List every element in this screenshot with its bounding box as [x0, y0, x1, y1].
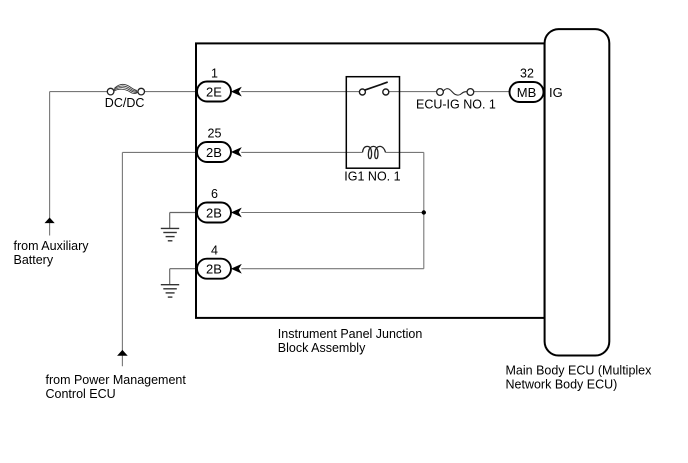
wire: relay coil to right vertical — [386, 151, 424, 153]
svg-text:MB: MB — [517, 85, 537, 100]
arrowhead into pin 2E — [232, 88, 241, 96]
svg-text:Main Body ECU (Multiplex: Main Body ECU (Multiplex — [506, 363, 653, 377]
pin oval 2B (6) — [197, 203, 231, 223]
svg-text:Instrument Panel Junction: Instrument Panel Junction — [278, 327, 423, 341]
wire: ground stub pin 6 — [170, 213, 197, 229]
wire: battery feed horizontal into DC/DC — [50, 91, 108, 93]
junction block box — [196, 43, 545, 318]
svg-text:DC/DC: DC/DC — [105, 96, 145, 110]
svg-text:2B: 2B — [206, 262, 222, 277]
pin oval 2B (4) — [197, 259, 231, 279]
svg-text:Network Body ECU): Network Body ECU) — [506, 377, 618, 391]
svg-text:ECU-IG NO. 1: ECU-IG NO. 1 — [416, 97, 496, 111]
wire: pin 2B(6) to junction — [241, 212, 423, 214]
svg-text:IG1 NO. 1: IG1 NO. 1 — [344, 170, 400, 184]
wire: pin 2E to relay switch — [241, 91, 359, 93]
wire: ground stub pin 4 — [170, 269, 197, 285]
svg-text:from Auxiliary: from Auxiliary — [14, 239, 90, 253]
relay switch contact right — [383, 89, 389, 95]
svg-text:IG: IG — [549, 85, 563, 100]
svg-text:from Power Management: from Power Management — [46, 373, 187, 387]
svg-text:6: 6 — [211, 187, 218, 201]
svg-text:4: 4 — [211, 243, 218, 257]
wire: battery feed vertical — [49, 92, 51, 236]
arrow from power management ECU — [117, 350, 128, 356]
wire: pin 2B(4) to junction vertical — [241, 268, 423, 270]
svg-text:Control ECU: Control ECU — [46, 387, 116, 401]
svg-text:Battery: Battery — [14, 253, 54, 267]
svg-text:32: 32 — [520, 66, 534, 80]
wire: DC/DC to junction block pin 2E — [144, 91, 197, 93]
svg-text:2B: 2B — [206, 145, 222, 160]
wire: vertical from coil to pin4 line — [423, 152, 425, 268]
relay coil — [363, 146, 386, 158]
svg-text:1: 1 — [211, 66, 218, 80]
junction node — [422, 210, 426, 214]
pin oval 2E — [197, 82, 231, 102]
fuse DC/DC — [113, 84, 137, 93]
wire: pin 2B(25) to relay coil — [241, 151, 362, 153]
wire: ECU-IG fuse to MB pin — [473, 91, 509, 93]
Main Body ECU pill — [545, 29, 610, 355]
arrow from auxiliary battery — [45, 218, 55, 224]
relay switch blade — [365, 82, 388, 90]
wire: relay switch to ECU-IG fuse — [389, 91, 437, 93]
ground symbol pin 4 — [161, 285, 179, 297]
fuse ECU-IG NO. 1 — [443, 89, 467, 95]
svg-text:2B: 2B — [206, 205, 222, 220]
relay box IG1 NO. 1 — [346, 77, 399, 169]
pin oval 2B (25) — [197, 142, 231, 162]
ground symbol pin 6 — [161, 228, 179, 240]
arrowhead into pin 2B(6) — [232, 208, 241, 216]
arrowhead into pin 2B(25) — [232, 148, 241, 156]
arrowhead into pin 2B(4) — [232, 265, 241, 273]
wire — [50, 92, 510, 367]
wire: power management feed to pin 2B(25) — [122, 151, 197, 153]
svg-text:25: 25 — [208, 127, 222, 141]
relay switch contact left — [359, 89, 365, 95]
svg-text:Block Assembly: Block Assembly — [278, 341, 366, 355]
svg-text:2E: 2E — [206, 84, 222, 99]
wire: power management vertical — [121, 152, 123, 366]
pin oval MB (32) — [510, 82, 544, 102]
